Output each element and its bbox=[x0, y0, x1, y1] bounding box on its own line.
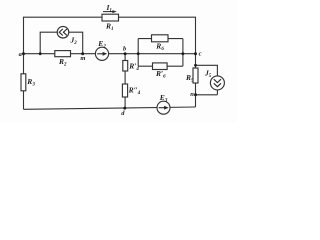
wire: J5 branch bbox=[196, 65, 218, 95]
svg-text:E2: E2 bbox=[97, 39, 106, 50]
svg-text:R1: R1 bbox=[105, 22, 114, 33]
voltage source E3 bbox=[157, 101, 170, 114]
resistor R3 bbox=[21, 74, 26, 91]
resistor R''4 bbox=[122, 84, 127, 97]
voltage source E3 arrow bbox=[159, 106, 169, 110]
current source J2 arrows (double chevron left) bbox=[59, 29, 67, 36]
current arrow I1 above R1 bbox=[103, 10, 117, 13]
wire: n to J5 bottom bbox=[196, 94, 218, 96]
wire: bridge top branch bbox=[138, 38, 183, 40]
wire: top, a-c middle, bottom, left, right bbox=[24, 17, 196, 109]
current source J2 bbox=[57, 26, 69, 38]
voltage source E2 arrow bbox=[97, 52, 107, 56]
node c bbox=[194, 52, 197, 55]
wire: bottom bbox=[24, 107, 196, 109]
svg-text:R2: R2 bbox=[58, 57, 67, 68]
current source J5 bbox=[210, 76, 224, 90]
wire: b to d vertical bbox=[124, 54, 126, 108]
wire: bridge rectangle right bbox=[182, 39, 184, 67]
wire: J2 loop bbox=[40, 32, 82, 54]
svg-text:a: a bbox=[19, 51, 23, 58]
wire: bridge bottom branch bbox=[138, 65, 183, 67]
svg-text:R″4: R″4 bbox=[128, 85, 141, 96]
node a bbox=[22, 52, 25, 55]
svg-text:R6: R6 bbox=[155, 42, 164, 53]
node m bbox=[81, 52, 84, 55]
resistor R2 bbox=[55, 51, 71, 57]
node bridge-right bbox=[182, 52, 185, 55]
svg-text:m: m bbox=[80, 55, 85, 62]
node junction J5-top bbox=[194, 64, 197, 67]
svg-text:b: b bbox=[123, 45, 127, 52]
voltage source E2 bbox=[95, 47, 108, 60]
svg-text:R3: R3 bbox=[26, 77, 35, 88]
current source J5 arrows (double chevron down) bbox=[214, 79, 221, 87]
resistor R'4 bbox=[123, 61, 128, 72]
resistor R6 bbox=[152, 35, 169, 42]
wire: middle a to c bbox=[24, 53, 196, 55]
node b bbox=[124, 52, 127, 55]
node bridge-left bbox=[137, 52, 140, 55]
node n bbox=[194, 93, 197, 96]
svg-text:J5: J5 bbox=[204, 69, 212, 80]
svg-text:I1: I1 bbox=[106, 3, 112, 14]
svg-text:R′6: R′6 bbox=[155, 69, 166, 80]
node d bbox=[123, 107, 126, 110]
resistor R1 bbox=[102, 14, 119, 21]
svg-text:n: n bbox=[190, 91, 194, 98]
wire: bridge rectangle left bbox=[137, 39, 139, 67]
svg-text:c: c bbox=[199, 51, 202, 58]
node junction J2-left bbox=[39, 52, 42, 55]
svg-text:d: d bbox=[121, 110, 125, 117]
resistor R'6 bbox=[153, 63, 168, 70]
resistor R5 bbox=[193, 68, 198, 83]
svg-text:E3: E3 bbox=[159, 93, 168, 104]
svg-text:J2: J2 bbox=[70, 35, 78, 46]
